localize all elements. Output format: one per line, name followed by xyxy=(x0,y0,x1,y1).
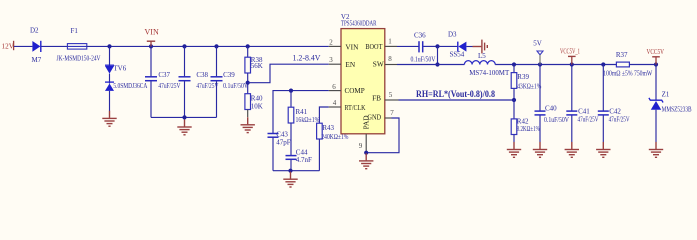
svg-text:C37: C37 xyxy=(158,71,170,79)
svg-text:BOOT: BOOT xyxy=(365,42,382,51)
node junction R39 xyxy=(512,62,516,66)
svg-text:VIN: VIN xyxy=(345,42,359,51)
wire comp bottom rail xyxy=(273,170,319,172)
regulator IC V2 TPS54360DDAR xyxy=(341,13,385,134)
resistor R42 xyxy=(511,100,540,142)
wire COMP net xyxy=(273,91,329,133)
node junction FB divider xyxy=(512,98,516,102)
capacitor C43 xyxy=(268,131,291,171)
capacitor C36 xyxy=(411,32,436,64)
svg-text:3: 3 xyxy=(329,56,333,64)
svg-text:47uF/25V: 47uF/25V xyxy=(578,115,599,123)
wire RT/CLK net xyxy=(319,107,328,123)
resistor R37 xyxy=(603,51,656,77)
wire 12V to D2 xyxy=(14,45,32,47)
svg-text:M7: M7 xyxy=(32,56,42,64)
svg-text:COMP: COMP xyxy=(345,86,365,95)
node junction pad/gnd xyxy=(364,151,368,155)
svg-text:C41: C41 xyxy=(578,107,590,115)
pin 1 stub BOOT xyxy=(385,45,397,47)
power port VCC5V xyxy=(647,48,665,65)
capacitor C40 xyxy=(535,65,570,143)
svg-text:D3: D3 xyxy=(448,30,457,38)
svg-text:C43: C43 xyxy=(276,131,288,139)
wire node to D3 xyxy=(438,45,458,47)
resistor R40 xyxy=(245,94,263,117)
node junction VCC5V_1/C41 xyxy=(570,62,574,66)
wire output rail xyxy=(495,64,616,66)
svg-text:1: 1 xyxy=(388,37,392,45)
svg-text:VIN: VIN xyxy=(145,28,159,37)
svg-text:47uF/25V: 47uF/25V xyxy=(196,82,218,90)
svg-text:F1: F1 xyxy=(71,27,79,35)
svg-text:R41: R41 xyxy=(296,108,308,116)
ground under R42 xyxy=(507,142,521,157)
node junction cap ground xyxy=(182,115,186,119)
node junction C42 xyxy=(601,62,605,66)
svg-text:RH=RL*(Vout-0.8)/0.8: RH=RL*(Vout-0.8)/0.8 xyxy=(416,89,495,99)
svg-text:R39: R39 xyxy=(517,73,529,81)
svg-text:0.1uF/50V: 0.1uF/50V xyxy=(411,55,436,63)
svg-text:R37: R37 xyxy=(616,51,628,59)
svg-text:9: 9 xyxy=(359,142,363,150)
svg-text:SS54: SS54 xyxy=(450,50,465,58)
svg-text:L5: L5 xyxy=(478,52,486,60)
svg-text:MMSZ5233B: MMSZ5233B xyxy=(662,106,692,114)
svg-text:6: 6 xyxy=(332,83,336,91)
svg-text:47uF/25V: 47uF/25V xyxy=(609,115,630,123)
pin 2 stub VIN xyxy=(329,45,341,47)
svg-text:VCC5V: VCC5V xyxy=(647,48,665,56)
wire D2 to F1 xyxy=(41,45,67,47)
pin 3 stub EN xyxy=(329,63,341,65)
svg-text:2: 2 xyxy=(329,38,333,46)
wire node down to SW xyxy=(437,46,439,64)
svg-text:PAD: PAD xyxy=(362,115,371,129)
svg-text:FB: FB xyxy=(372,93,381,102)
svg-text:RT/CLK: RT/CLK xyxy=(345,103,367,112)
node junction comp gnd xyxy=(288,169,292,173)
svg-text:8: 8 xyxy=(388,55,392,63)
svg-text:JK-MSMD150-24V: JK-MSMD150-24V xyxy=(57,55,101,63)
svg-text:5.0SMDJ36CA: 5.0SMDJ36CA xyxy=(113,82,147,90)
svg-text:TV6: TV6 xyxy=(113,64,126,72)
svg-text:C42: C42 xyxy=(609,107,621,115)
ground rotated right of D3 xyxy=(473,40,488,54)
svg-text:TPS54360DDAR: TPS54360DDAR xyxy=(341,19,377,28)
svg-text:7: 7 xyxy=(390,109,394,117)
svg-text:5V: 5V xyxy=(533,40,542,48)
inductor L5 xyxy=(464,52,510,77)
svg-text:5: 5 xyxy=(389,91,393,99)
power port 5V xyxy=(533,40,543,65)
svg-text:1.2-8.4V: 1.2-8.4V xyxy=(293,54,321,63)
pin 8 stub SW xyxy=(385,64,397,66)
capacitor C39 xyxy=(211,46,249,117)
svg-text:0.1uF/50V: 0.1uF/50V xyxy=(223,82,248,90)
svg-text:10K: 10K xyxy=(251,102,263,110)
capacitor C37 xyxy=(145,46,180,117)
diode D3 xyxy=(448,30,473,58)
svg-text:SW: SW xyxy=(373,60,384,69)
node junction C38 xyxy=(182,44,186,48)
wire FB net xyxy=(399,99,515,101)
wire bottom rail of input caps xyxy=(151,116,217,118)
port 12V xyxy=(2,41,15,51)
svg-text:4.7nF: 4.7nF xyxy=(296,156,312,164)
svg-text:8.2KΩ±1%: 8.2KΩ±1% xyxy=(517,125,540,133)
wire GND pin to pad node xyxy=(366,118,399,153)
fuse F1 xyxy=(57,27,101,63)
resistor R43 xyxy=(317,123,349,171)
node junction 5V/C40 xyxy=(538,62,542,66)
node junction R38 xyxy=(246,44,250,48)
node junction boot/sw cap xyxy=(435,44,439,48)
svg-text:100mΩ ±5% 750mW: 100mΩ ±5% 750mW xyxy=(603,69,652,77)
svg-text:D2: D2 xyxy=(30,27,39,35)
svg-text:C36: C36 xyxy=(414,32,426,40)
wire SW to inductor xyxy=(397,64,464,66)
pin 4 stub RT/CLK xyxy=(329,106,341,108)
svg-text:R43: R43 xyxy=(322,124,334,132)
svg-text:43KΩ±1%: 43KΩ±1% xyxy=(517,83,541,91)
pin 5 stub FB xyxy=(385,99,399,101)
node junction C39 xyxy=(214,44,218,48)
ground under C40 xyxy=(533,142,547,157)
svg-text:4: 4 xyxy=(333,99,337,107)
ground under C42 xyxy=(596,142,610,157)
ground under input caps xyxy=(177,119,191,134)
svg-text:C39: C39 xyxy=(223,71,235,79)
svg-text:47pF: 47pF xyxy=(276,139,291,147)
diode D2 xyxy=(30,27,42,65)
node junction VCC5V/Z1 xyxy=(654,62,658,66)
svg-text:56K: 56K xyxy=(251,62,263,70)
ground under C41 xyxy=(565,142,579,157)
svg-text:12V: 12V xyxy=(2,42,15,50)
wire C36 to node xyxy=(423,45,437,47)
capacitor C38 xyxy=(179,46,219,117)
node junction C37/VIN xyxy=(149,44,153,48)
pin 7 stub GND xyxy=(385,117,392,119)
svg-text:47uF/25V: 47uF/25V xyxy=(158,82,180,90)
svg-text:0.1uF/50V: 0.1uF/50V xyxy=(544,116,569,124)
pin 9 stub PAD xyxy=(365,134,367,153)
resistor R38 xyxy=(245,46,263,93)
wire F1 to VIN pin (main input rail) xyxy=(87,45,329,47)
wire BOOT to C36 xyxy=(397,45,419,47)
svg-text:VCC5V_1: VCC5V_1 xyxy=(560,48,580,56)
node junction R41 top xyxy=(289,89,293,93)
node junction on SW line xyxy=(435,62,439,66)
power port VCC5V_1 xyxy=(560,48,580,65)
resistor R39 xyxy=(511,65,541,101)
capacitor C41 xyxy=(566,65,598,143)
power port VIN xyxy=(145,28,159,47)
svg-text:C38: C38 xyxy=(196,71,208,79)
svg-text:EN: EN xyxy=(345,60,355,69)
resistor R41 xyxy=(288,91,319,156)
ground under chip pad xyxy=(359,153,373,168)
ground under R40 xyxy=(241,117,255,132)
node junction R38/R40 xyxy=(246,81,250,85)
ground under Z1 xyxy=(649,142,663,157)
svg-text:MS74-100MT: MS74-100MT xyxy=(469,69,510,77)
svg-text:Z1: Z1 xyxy=(662,90,670,98)
svg-text:R40: R40 xyxy=(251,94,263,102)
ground under C43/C44 xyxy=(283,172,297,187)
svg-text:C40: C40 xyxy=(545,104,557,112)
ground under TV6 xyxy=(102,111,116,126)
capacitor C42 xyxy=(598,65,630,143)
capacitor C44 xyxy=(286,149,313,171)
tvs TV6 xyxy=(105,46,147,111)
wire EN net xyxy=(248,64,329,83)
zener Z1 xyxy=(649,65,692,143)
pin 6 stub COMP xyxy=(329,90,341,92)
node junction TVS xyxy=(107,44,111,48)
